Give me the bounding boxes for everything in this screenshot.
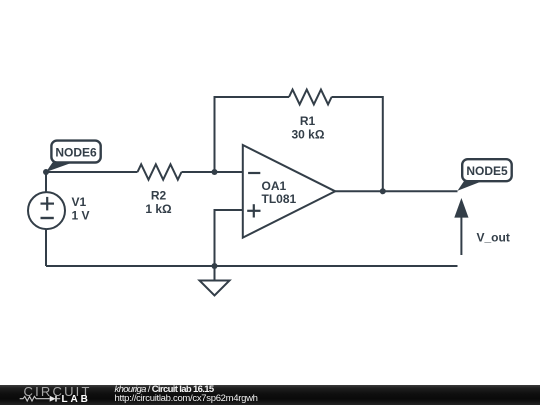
svg-text:V1: V1 — [72, 195, 87, 209]
svg-text:OA1: OA1 — [262, 179, 287, 193]
svg-text:V_out: V_out — [477, 231, 510, 245]
svg-text:1 kΩ: 1 kΩ — [145, 202, 172, 216]
svg-text:NODE6: NODE6 — [55, 146, 97, 160]
svg-text:1 V: 1 V — [72, 209, 90, 223]
svg-text:R2: R2 — [151, 189, 167, 203]
svg-text:30 kΩ: 30 kΩ — [292, 128, 325, 142]
svg-text:NODE5: NODE5 — [466, 164, 508, 178]
svg-text:R1: R1 — [300, 114, 316, 128]
svg-text:TL081: TL081 — [262, 192, 297, 206]
